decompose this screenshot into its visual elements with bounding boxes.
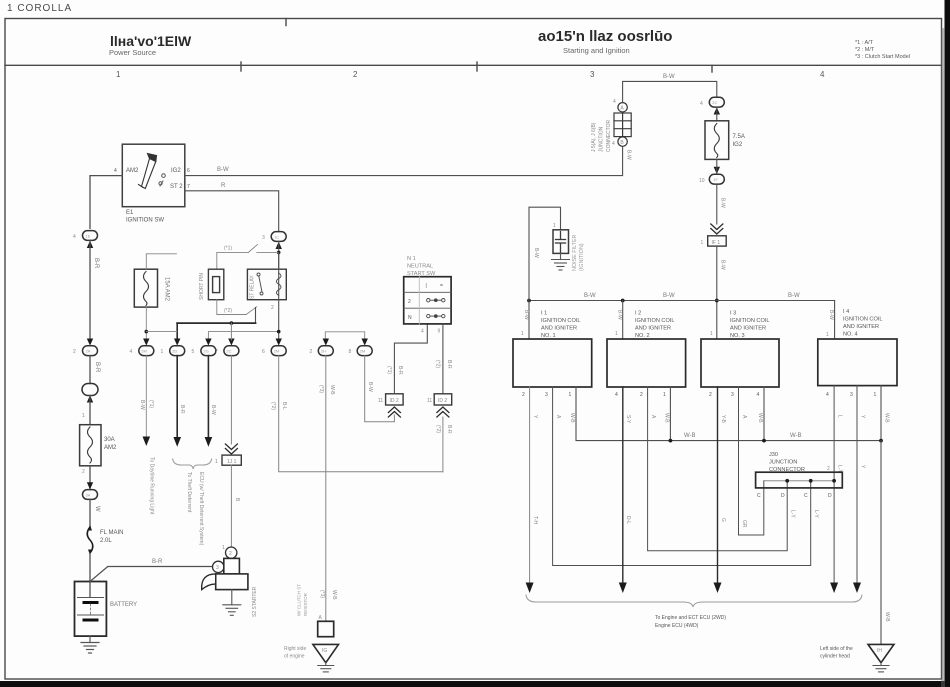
svg-text:2M: 2M bbox=[274, 349, 280, 354]
wire I4 IGF down bbox=[856, 386, 858, 584]
starter solenoid box bbox=[224, 558, 240, 574]
node bus left bbox=[527, 299, 531, 303]
svg-text:B-W: B-W bbox=[788, 293, 800, 299]
svg-text:(*2): (*2) bbox=[435, 425, 441, 433]
chevron shield N1 right bbox=[437, 407, 449, 417]
svg-text:2: 2 bbox=[82, 469, 85, 475]
svg-text:2H: 2H bbox=[321, 349, 326, 354]
svg-text:To Engine and ECT ECU (2WD): To Engine and ECT ECU (2WD) bbox=[655, 615, 726, 621]
svg-text:B-W: B-W bbox=[210, 405, 216, 415]
svg-text:4: 4 bbox=[615, 392, 618, 398]
svg-text:W-B: W-B bbox=[329, 385, 335, 395]
wire I1 IGT down bbox=[529, 387, 531, 584]
N1 park neutral switch title bbox=[407, 256, 436, 277]
svg-text:B-W: B-W bbox=[217, 167, 229, 173]
svg-text:ao15'n llaz oosrlūo: ao15'n llaz oosrlūo bbox=[538, 28, 672, 45]
svg-text:B-W: B-W bbox=[584, 293, 596, 299]
connector 2M row5 bbox=[271, 346, 286, 356]
svg-text:3: 3 bbox=[216, 565, 219, 571]
connector 1C above relay bbox=[271, 232, 286, 242]
wire I1 ground pin to WB bus bbox=[576, 387, 881, 441]
brace theft bbox=[173, 459, 212, 469]
wire battery to starter (B) bbox=[90, 567, 212, 582]
svg-text:A: A bbox=[555, 415, 561, 419]
svg-text:2C: 2C bbox=[226, 349, 231, 354]
ignition switch labels bbox=[114, 168, 190, 224]
I4 pin labels bbox=[826, 392, 877, 398]
svg-text:AM2: AM2 bbox=[126, 168, 139, 174]
svg-text:6: 6 bbox=[187, 168, 190, 174]
svg-text:JUNCTION: JUNCTION bbox=[769, 460, 797, 466]
svg-text:2: 2 bbox=[310, 349, 313, 355]
arrow down into 2A bbox=[87, 339, 93, 346]
svg-text:2: 2 bbox=[353, 70, 358, 79]
svg-text:IG2: IG2 bbox=[171, 168, 181, 174]
wire 2I down to shield link bbox=[365, 356, 395, 422]
svg-text:2M: 2M bbox=[141, 349, 147, 354]
wire I2 IGT down bbox=[622, 387, 624, 584]
svg-text:1J 1: 1J 1 bbox=[227, 459, 237, 465]
wire I4 ground pin bbox=[880, 386, 882, 441]
svg-text:NO. 3: NO. 3 bbox=[730, 333, 745, 339]
svg-text:AND IGNITER: AND IGNITER bbox=[843, 324, 879, 330]
arrow into 2I bbox=[362, 339, 368, 346]
svg-text:Engine ECU (4WD): Engine ECU (4WD) bbox=[655, 623, 699, 629]
svg-text:B-R: B-R bbox=[179, 405, 185, 414]
wire node to short pin top with switch gap bbox=[217, 245, 279, 270]
wire joint to fuse AM2 30A bbox=[89, 396, 91, 425]
connector 1F bbox=[709, 174, 724, 184]
fuse IG2 squiggle bbox=[714, 124, 719, 158]
svg-text:7: 7 bbox=[187, 184, 190, 190]
svg-text:1: 1 bbox=[615, 331, 618, 337]
starter pinion bbox=[202, 574, 216, 590]
wire 3A to fusible link bbox=[89, 499, 91, 527]
shield box IF1 bbox=[708, 236, 727, 246]
wire to round joint bbox=[89, 356, 91, 384]
svg-text:1: 1 bbox=[663, 392, 666, 398]
svg-text:2C: 2C bbox=[712, 100, 717, 105]
I1 pin labels bbox=[522, 392, 572, 398]
svg-text:B-R: B-R bbox=[93, 258, 99, 269]
I2 pin labels bbox=[615, 392, 666, 398]
wire link fuse15 to bus drop bbox=[146, 331, 177, 333]
noise filter box bbox=[553, 230, 569, 254]
svg-text:2: 2 bbox=[271, 305, 274, 311]
arrow I4 IGT bbox=[830, 583, 838, 594]
svg-text:2: 2 bbox=[522, 392, 525, 398]
wire I2 ground pin bbox=[669, 387, 671, 441]
N1 cell marks bbox=[408, 283, 443, 321]
battery box bbox=[75, 582, 107, 637]
svg-text:G: G bbox=[720, 518, 726, 522]
svg-text:2: 2 bbox=[229, 551, 232, 557]
svg-text:B-R: B-R bbox=[397, 366, 403, 375]
connector 2A left rail bbox=[83, 346, 98, 356]
svg-text:30A: 30A bbox=[104, 437, 115, 443]
starter terminal 30 bbox=[213, 561, 224, 572]
svg-text:3: 3 bbox=[545, 392, 548, 398]
svg-text:4: 4 bbox=[114, 168, 117, 174]
arrow end 2D bbox=[173, 437, 181, 447]
svg-text:ECU (w/ Theft Deterrent System: ECU (w/ Theft Deterrent System) bbox=[198, 472, 204, 546]
svg-text:D-L: D-L bbox=[625, 516, 631, 524]
svg-text:3: 3 bbox=[262, 235, 265, 241]
svg-text:10: 10 bbox=[699, 178, 705, 184]
round joint connector bbox=[82, 384, 98, 396]
svg-text:I 3: I 3 bbox=[730, 311, 736, 317]
svg-text:RESISTOR: RESISTOR bbox=[303, 592, 308, 616]
svg-text:IGNITION COIL: IGNITION COIL bbox=[541, 318, 580, 324]
J30 inner bar bbox=[764, 480, 835, 482]
wire drop from 2G bbox=[207, 356, 209, 437]
wire I1 IGF to J30 bbox=[553, 387, 811, 566]
svg-text:2: 2 bbox=[73, 349, 76, 355]
arrow up into fuse bbox=[714, 107, 720, 114]
header ticks bbox=[241, 19, 712, 73]
svg-text:B-R: B-R bbox=[446, 360, 452, 369]
svg-text:B-W: B-W bbox=[533, 248, 539, 258]
J30 nodes bbox=[785, 479, 836, 483]
svg-text:1: 1 bbox=[569, 392, 572, 398]
wire fuse 15A top stub bbox=[146, 254, 176, 269]
arrow I2 IGT bbox=[619, 583, 627, 594]
ignition coil I1 title bbox=[541, 311, 580, 340]
wire ST2 to relay connector bbox=[185, 191, 279, 232]
fuse AM2 30A squiggle bbox=[88, 427, 93, 463]
svg-text:S-Y: S-Y bbox=[625, 415, 631, 424]
ground triangle right bbox=[868, 644, 894, 662]
svg-text:Right side: Right side bbox=[284, 646, 306, 652]
svg-text:A: A bbox=[319, 615, 323, 621]
wire fuse to 3A connector bbox=[89, 466, 91, 490]
header thai left: Power Source bbox=[109, 33, 192, 57]
svg-text:NEUTRAL: NEUTRAL bbox=[407, 264, 433, 270]
wire drop 2C to starter bbox=[230, 356, 232, 444]
svg-text:(*1): (*1) bbox=[224, 246, 232, 252]
wire N1 right to bus bbox=[442, 417, 444, 472]
I3 pin labels bbox=[709, 392, 760, 398]
svg-text:W-B: W-B bbox=[757, 413, 763, 423]
wire I4 IGT down through J30 bbox=[833, 386, 835, 584]
svg-text:NO. 1: NO. 1 bbox=[541, 333, 556, 339]
svg-text:of engine: of engine bbox=[284, 654, 305, 660]
shield box ID2 right bbox=[434, 394, 452, 405]
svg-text:2: 2 bbox=[709, 392, 712, 398]
svg-text:ID 2: ID 2 bbox=[390, 398, 399, 404]
ground bars right bbox=[873, 663, 889, 672]
arrow into 2H bbox=[323, 339, 329, 346]
wire I3 IGF to J30 bbox=[739, 387, 764, 535]
wire 1C to relay node bbox=[278, 241, 280, 269]
wire J/B top to 2C bbox=[623, 81, 717, 102]
ST relay contact bbox=[257, 273, 263, 295]
ignition coil I3 title bbox=[730, 311, 769, 340]
arrow down into 3A bbox=[87, 482, 93, 489]
node I3 ground bbox=[762, 439, 766, 443]
ignition coil I3 box bbox=[701, 339, 779, 387]
wire drop from 2M row1 bbox=[145, 356, 147, 437]
starter terminal 50 bbox=[226, 547, 237, 558]
svg-text:B: B bbox=[234, 498, 240, 502]
bridge ovals 2H 2I bbox=[325, 332, 364, 339]
svg-text:SHORT PIN: SHORT PIN bbox=[199, 273, 205, 300]
svg-text:4: 4 bbox=[613, 99, 616, 105]
fuse IG2 7.5A box bbox=[705, 121, 729, 160]
ignition switch contacts bbox=[159, 174, 165, 186]
svg-text:IGNITION COIL: IGNITION COIL bbox=[635, 318, 674, 324]
svg-text:W-B: W-B bbox=[884, 413, 890, 423]
svg-text:IGNITION COIL: IGNITION COIL bbox=[843, 317, 882, 323]
short pin box bbox=[208, 269, 223, 300]
svg-text:(*2): (*2) bbox=[224, 308, 232, 314]
svg-text:9: 9 bbox=[438, 329, 441, 335]
svg-text:B-W: B-W bbox=[828, 310, 834, 320]
fuse AM2 30A label bbox=[104, 437, 117, 451]
svg-text:|: | bbox=[426, 283, 427, 289]
svg-text:2: 2 bbox=[640, 392, 643, 398]
svg-text:2: 2 bbox=[408, 299, 411, 305]
shield box 1J bbox=[222, 455, 241, 465]
svg-text:1F: 1F bbox=[713, 177, 718, 182]
wire 2H down to resistor bbox=[325, 356, 327, 622]
connector 1E left rail bbox=[83, 231, 98, 241]
shield box ID2 left bbox=[386, 394, 404, 405]
wire fuse to 1F bbox=[716, 159, 718, 174]
svg-text:I 1: I 1 bbox=[541, 311, 547, 317]
svg-text:4: 4 bbox=[826, 392, 829, 398]
svg-text:11: 11 bbox=[427, 398, 432, 404]
svg-text:IGNITION SW: IGNITION SW bbox=[126, 218, 164, 224]
arrow end row1 bbox=[143, 437, 151, 447]
svg-text:Y-B: Y-B bbox=[720, 415, 726, 424]
svg-text:2M: 2M bbox=[360, 349, 366, 354]
node bus IF1 bbox=[715, 299, 719, 303]
svg-text:4: 4 bbox=[757, 392, 760, 398]
svg-text:4: 4 bbox=[700, 101, 703, 107]
svg-text:B-W: B-W bbox=[663, 293, 675, 299]
svg-text:1: 1 bbox=[161, 349, 164, 355]
svg-text:N: N bbox=[408, 315, 412, 321]
svg-text:2: 2 bbox=[827, 466, 830, 472]
svg-text:2.0L: 2.0L bbox=[100, 538, 112, 544]
svg-text:(*2): (*2) bbox=[270, 402, 276, 410]
arrow I1 IGT bbox=[526, 583, 534, 594]
node starter branch bbox=[230, 321, 234, 325]
svg-text:C: C bbox=[804, 493, 808, 499]
svg-text:D: D bbox=[828, 493, 832, 499]
svg-text:5: 5 bbox=[192, 349, 195, 355]
svg-text:cylinder head: cylinder head bbox=[820, 654, 850, 660]
svg-text:1: 1 bbox=[215, 459, 218, 465]
wire fusible link to battery bbox=[89, 553, 91, 597]
wire IF1 to bus bbox=[716, 246, 718, 339]
svg-text:(*3): (*3) bbox=[319, 590, 325, 598]
connector row arrows bbox=[143, 339, 282, 346]
connector 3A bbox=[83, 490, 98, 500]
battery ground bbox=[81, 636, 99, 653]
svg-text:B-W: B-W bbox=[720, 198, 726, 208]
svg-text:2G: 2G bbox=[203, 349, 208, 354]
svg-text:J 5(A), J 6(B): J 5(A), J 6(B) bbox=[591, 122, 597, 152]
column numbers bbox=[116, 70, 825, 79]
svg-text:IG2: IG2 bbox=[733, 142, 743, 148]
svg-text:S2 STARTER: S2 STARTER bbox=[252, 586, 258, 617]
svg-text:AND IGNITER: AND IGNITER bbox=[730, 326, 766, 332]
wire left rail mid bbox=[89, 240, 91, 340]
svg-text:W-B: W-B bbox=[663, 413, 669, 423]
svg-text:GR: GR bbox=[741, 520, 747, 528]
ignition coil I4 box bbox=[818, 339, 897, 386]
svg-text:B-W: B-W bbox=[139, 400, 145, 410]
svg-text:(IGNITION): (IGNITION) bbox=[579, 243, 585, 271]
starter ground bbox=[223, 590, 241, 616]
svg-text:11: 11 bbox=[378, 398, 383, 404]
svg-text:To Theft Deterrent: To Theft Deterrent bbox=[186, 472, 192, 513]
svg-text:Power Source: Power Source bbox=[109, 48, 156, 57]
resistor box bbox=[318, 621, 334, 636]
arrow up into 1E bbox=[87, 241, 93, 248]
wire WB to right ground bbox=[880, 441, 882, 645]
svg-text:B-W: B-W bbox=[617, 310, 623, 320]
svg-text:AM2: AM2 bbox=[104, 445, 117, 451]
svg-text:AND IGNITER: AND IGNITER bbox=[541, 326, 577, 332]
svg-text:C: C bbox=[757, 493, 761, 499]
wire shield to starter bbox=[230, 465, 232, 547]
B-W bus horizontal bbox=[529, 300, 835, 302]
node bus coil2 bbox=[621, 299, 625, 303]
fuse AM2 15A squiggle bbox=[144, 272, 149, 306]
svg-text:8: 8 bbox=[349, 349, 352, 355]
wire 1F to shield bbox=[716, 184, 718, 224]
svg-text:B-R: B-R bbox=[446, 425, 452, 434]
battery plates bbox=[78, 598, 104, 616]
svg-text:A: A bbox=[650, 415, 656, 419]
ST relay box bbox=[247, 269, 286, 300]
node I4 ground bbox=[879, 439, 883, 443]
svg-text:Y: Y bbox=[532, 415, 538, 419]
J30 pin letters bbox=[757, 493, 832, 499]
ignition switch key glyph bbox=[139, 154, 157, 189]
chevron shield starter bbox=[225, 444, 237, 454]
svg-text:Y: Y bbox=[860, 415, 866, 419]
junction block grid bbox=[614, 113, 631, 137]
chevron shield N1 left bbox=[388, 407, 400, 417]
node I2 ground bbox=[669, 439, 673, 443]
svg-text:ST 2: ST 2 bbox=[170, 184, 183, 190]
svg-text:(*1): (*1) bbox=[148, 400, 154, 408]
svg-text:E1: E1 bbox=[126, 210, 134, 216]
svg-text:7: 7 bbox=[215, 349, 218, 355]
svg-text:W-B: W-B bbox=[569, 413, 575, 423]
svg-text:(*1): (*1) bbox=[386, 366, 392, 374]
svg-text:I 4: I 4 bbox=[843, 309, 849, 315]
arrow up into 1C bbox=[276, 242, 282, 249]
ST relay coil bbox=[276, 273, 281, 295]
svg-text:N 1: N 1 bbox=[407, 256, 416, 262]
svg-text:B-W: B-W bbox=[367, 382, 373, 392]
svg-text:7.5A: 7.5A bbox=[733, 134, 745, 140]
ignition coil I2 box bbox=[607, 339, 686, 387]
svg-text:15A AM2: 15A AM2 bbox=[164, 277, 170, 302]
caption engine ECU bbox=[655, 615, 726, 629]
svg-text:Left side of the: Left side of the bbox=[820, 646, 853, 652]
connector 2C row4 bbox=[224, 346, 239, 356]
thick bus relay output bbox=[177, 322, 255, 324]
N1 grid lines bbox=[404, 277, 451, 324]
node fuse15 branch bbox=[145, 330, 149, 334]
FL MAIN label bbox=[100, 530, 123, 544]
connector 2G row3 bbox=[201, 346, 216, 356]
svg-text:B-W: B-W bbox=[663, 74, 675, 80]
svg-text:To Daytime Running Light: To Daytime Running Light bbox=[149, 457, 155, 515]
svg-text:W-B: W-B bbox=[884, 612, 890, 622]
fuse IG2 label bbox=[733, 134, 745, 148]
J30 junction connector box bbox=[756, 472, 843, 488]
arrow up into joint bbox=[87, 395, 93, 402]
arrow I3 IGT bbox=[714, 583, 722, 594]
svg-text:Starting and Ignition: Starting and Ignition bbox=[563, 46, 630, 55]
svg-text:B-R: B-R bbox=[152, 559, 163, 565]
svg-text:W: W bbox=[94, 506, 100, 512]
wire fuse 15A bottom to row bbox=[145, 307, 147, 341]
svg-text:B-W: B-W bbox=[626, 150, 632, 160]
svg-text:B-R: B-R bbox=[94, 362, 100, 373]
node coil output row bbox=[277, 330, 281, 334]
svg-text:W-B: W-B bbox=[790, 433, 802, 439]
svg-text:1: 1 bbox=[553, 223, 556, 229]
svg-text:1: 1 bbox=[826, 332, 829, 338]
brace to engine ECU bbox=[526, 595, 862, 607]
svg-text:6: 6 bbox=[262, 349, 265, 355]
svg-text:I 2: I 2 bbox=[635, 311, 641, 317]
svg-text:AND IGNITER: AND IGNITER bbox=[635, 326, 671, 332]
svg-text:NOISE FILTER: NOISE FILTER bbox=[572, 234, 578, 271]
svg-text:D: D bbox=[781, 493, 785, 499]
wire AM2 to left rail bbox=[90, 176, 122, 229]
svg-text:L-Y: L-Y bbox=[813, 510, 819, 518]
title COROLLA bbox=[7, 3, 72, 14]
svg-text:ID 2: ID 2 bbox=[438, 398, 447, 404]
svg-text:1E: 1E bbox=[86, 234, 91, 239]
wire drop to 2G bbox=[207, 332, 209, 341]
svg-text:B-W: B-W bbox=[720, 260, 726, 270]
ground bars below triangle bbox=[318, 663, 334, 672]
svg-text:IH: IH bbox=[877, 648, 882, 654]
ground triangle right of starter bbox=[313, 644, 339, 662]
svg-text:W-B: W-B bbox=[331, 590, 337, 600]
wire B-W ignition IG2 to junction block bbox=[185, 147, 623, 176]
svg-text:4: 4 bbox=[73, 234, 76, 240]
noise filter feed wire bbox=[529, 207, 561, 300]
svg-text:L-Y: L-Y bbox=[790, 510, 796, 518]
wire shield to N1 left pin bbox=[394, 324, 427, 394]
svg-text:1: 1 bbox=[222, 545, 225, 551]
wire relay contact output bbox=[255, 308, 257, 324]
wire drop from 2D bbox=[176, 356, 178, 437]
connector 2C top bbox=[709, 97, 724, 107]
svg-text:L: L bbox=[837, 415, 843, 418]
svg-text:*2 : M/T: *2 : M/T bbox=[855, 47, 875, 53]
noise filter capacitor bbox=[556, 232, 566, 254]
svg-text:3: 3 bbox=[590, 70, 595, 79]
svg-text:*1 : A/T: *1 : A/T bbox=[855, 40, 874, 46]
header thai right: Starting and Ignition bbox=[538, 28, 672, 55]
svg-text:CONNECTOR: CONNECTOR bbox=[606, 119, 612, 152]
svg-text:(*2): (*2) bbox=[435, 360, 441, 368]
svg-text:(*3): (*3) bbox=[318, 385, 324, 393]
svg-text:JUNCTION: JUNCTION bbox=[599, 126, 605, 152]
